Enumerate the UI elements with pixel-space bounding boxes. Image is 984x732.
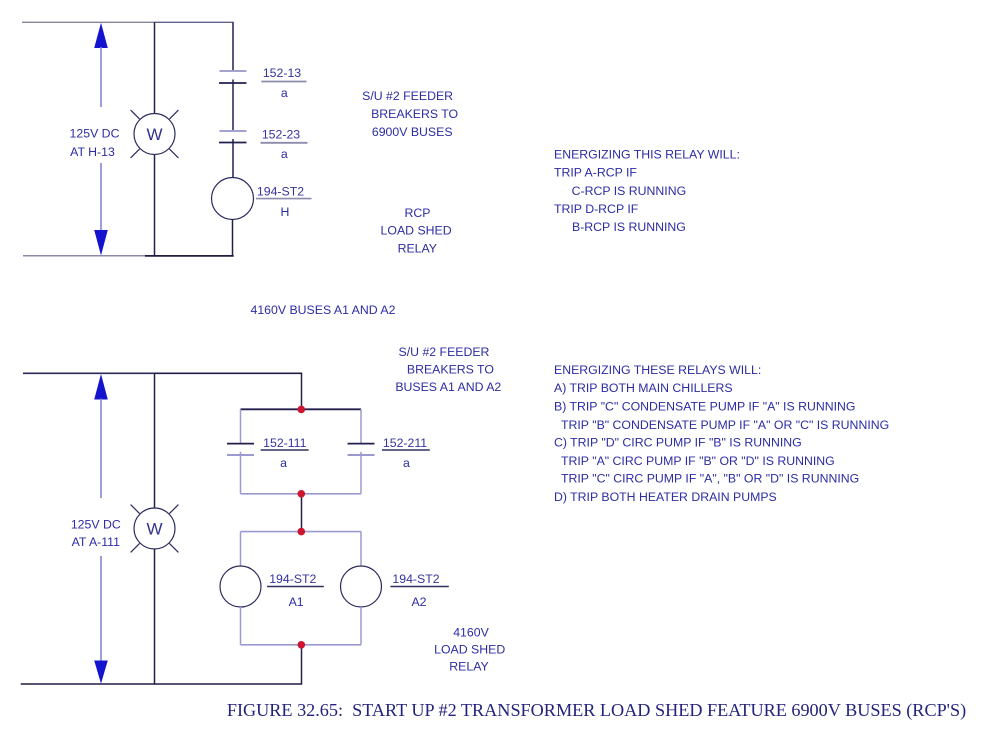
svg-text:TRIP "B" CONDENSATE PUMP IF "A: TRIP "B" CONDENSATE PUMP IF "A" OR "C" I… — [561, 418, 889, 432]
svg-text:BREAKERS TO: BREAKERS TO — [371, 107, 458, 121]
svg-text:TRIP "C" CIRC PUMP IF "A", "B": TRIP "C" CIRC PUMP IF "A", "B" OR "D" IS… — [561, 471, 859, 485]
svg-text:a: a — [281, 86, 288, 100]
svg-text:152-211: 152-211 — [383, 436, 427, 450]
svg-text:W: W — [146, 125, 162, 144]
svg-text:TRIP A-RCP IF: TRIP A-RCP IF — [554, 166, 637, 180]
svg-text:A) TRIP BOTH MAIN CHILLERS: A) TRIP BOTH MAIN CHILLERS — [554, 381, 733, 395]
svg-text:A1: A1 — [289, 595, 304, 609]
svg-text:a: a — [403, 456, 410, 470]
svg-text:4160V: 4160V — [453, 626, 489, 640]
svg-text:125V DC: 125V DC — [70, 126, 120, 140]
svg-text:ENERGIZING THIS RELAY WILL:: ENERGIZING THIS RELAY WILL: — [554, 147, 740, 161]
svg-text:a: a — [280, 456, 287, 470]
svg-text:AT A-111: AT A-111 — [72, 535, 120, 549]
svg-text:D) TRIP BOTH HEATER DRAIN PUMP: D) TRIP BOTH HEATER DRAIN PUMPS — [554, 490, 777, 504]
svg-text:LOAD SHED: LOAD SHED — [381, 223, 452, 237]
svg-text:152-13: 152-13 — [263, 66, 301, 80]
svg-text:152-111: 152-111 — [263, 436, 306, 450]
svg-text:W: W — [146, 520, 162, 539]
svg-text:BREAKERS TO: BREAKERS TO — [407, 362, 494, 376]
svg-text:TRIP D-RCP IF: TRIP D-RCP IF — [554, 202, 639, 216]
svg-text:4160V BUSES A1 AND A2: 4160V BUSES A1 AND A2 — [251, 303, 396, 317]
svg-text:S/U #2 FEEDER: S/U #2 FEEDER — [399, 345, 490, 359]
svg-text:B) TRIP "C" CONDENSATE PUMP IF: B) TRIP "C" CONDENSATE PUMP IF "A" IS RU… — [554, 399, 855, 413]
svg-text:125V DC: 125V DC — [71, 517, 121, 531]
svg-text:ENERGIZING THESE RELAYS WILL:: ENERGIZING THESE RELAYS WILL: — [554, 363, 761, 377]
svg-text:S/U #2 FEEDER: S/U #2 FEEDER — [362, 89, 453, 103]
svg-text:a: a — [281, 147, 288, 161]
svg-text:BUSES A1 AND A2: BUSES A1 AND A2 — [395, 380, 501, 394]
svg-text:194-ST2: 194-ST2 — [257, 184, 304, 198]
svg-text:B-RCP IS RUNNING: B-RCP IS RUNNING — [572, 220, 686, 234]
svg-text:6900V BUSES: 6900V BUSES — [372, 125, 453, 139]
svg-text:FIGURE 32.65: START UP #2 TRA: FIGURE 32.65: START UP #2 TRANSFORMER LO… — [227, 700, 966, 721]
svg-text:C-RCP IS RUNNING: C-RCP IS RUNNING — [572, 184, 687, 198]
svg-text:A2: A2 — [411, 595, 426, 609]
svg-text:C) TRIP "D" CIRC PUMP IF "B" I: C) TRIP "D" CIRC PUMP IF "B" IS RUNNING — [554, 435, 802, 449]
svg-text:194-ST2: 194-ST2 — [269, 572, 316, 586]
svg-text:RELAY: RELAY — [449, 659, 488, 673]
svg-text:TRIP "A" CIRC PUMP IF "B" OR ": TRIP "A" CIRC PUMP IF "B" OR "D" IS RUNN… — [561, 454, 835, 468]
svg-text:H: H — [281, 205, 290, 219]
svg-text:RELAY: RELAY — [398, 242, 437, 256]
svg-text:AT H-13: AT H-13 — [70, 145, 115, 159]
svg-text:152-23: 152-23 — [262, 128, 300, 142]
svg-text:LOAD SHED: LOAD SHED — [434, 643, 505, 657]
svg-text:RCP: RCP — [405, 206, 431, 220]
svg-text:194-ST2: 194-ST2 — [392, 572, 439, 586]
